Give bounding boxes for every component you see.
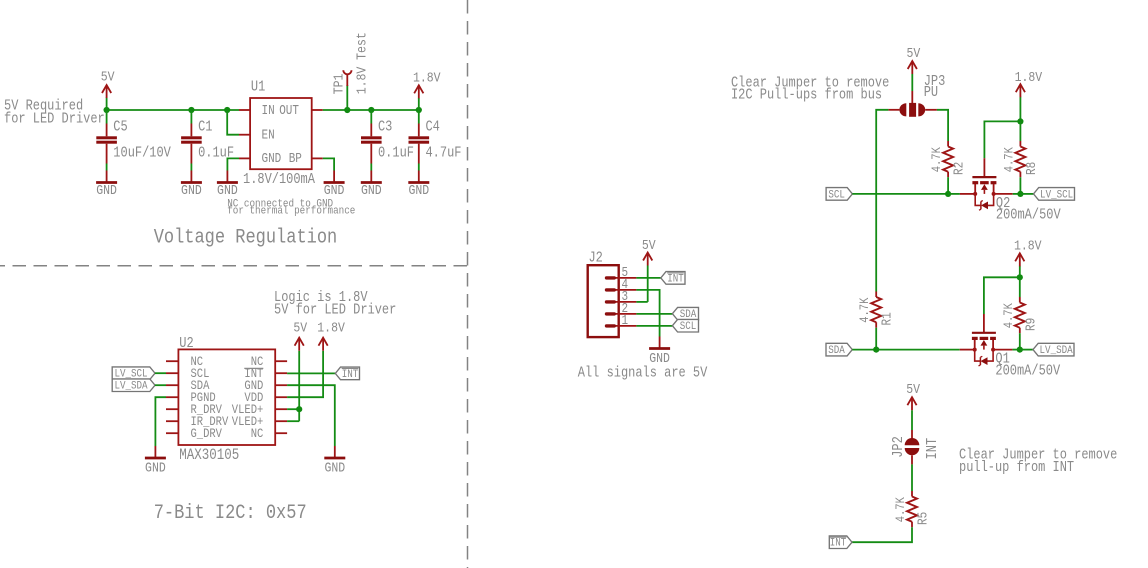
svg-text:4.7K: 4.7K [1001, 146, 1016, 172]
svg-text:5V: 5V [293, 320, 307, 336]
Q1 source-drain junctions [973, 348, 977, 352]
wire R2 bottom to SCL node [947, 177, 949, 194]
wire R9 body [1019, 277, 1021, 297]
ground [217, 171, 238, 199]
ground [361, 171, 382, 199]
node junction TP1 [344, 107, 350, 113]
svg-text:1.8V/100mA: 1.8V/100mA [243, 172, 316, 188]
pin stubs U1 [239, 110, 323, 158]
overline on INT pin [244, 367, 263, 369]
node junction R9 top [1017, 274, 1023, 280]
svg-text:1.8V: 1.8V [413, 69, 441, 85]
svg-text:IN: IN [262, 103, 275, 118]
wire LV_SDA to U2 SDA [155, 384, 166, 386]
ground [145, 446, 166, 476]
ground [649, 337, 670, 367]
wire SCL node to Q2 source [948, 193, 960, 195]
supply 5V [293, 320, 307, 351]
svg-text:1.8V: 1.8V [317, 320, 345, 336]
dashed frame divider vertical [467, 0, 469, 568]
svg-text:GND: GND [96, 182, 117, 198]
pin 1 pad and stub [605, 324, 637, 327]
node junction LV_SDA R9 [1017, 347, 1023, 353]
wire SDA flag to R1 node [852, 349, 876, 351]
pin stubs U2 left [166, 361, 178, 433]
note 5V Required for LED Driver [4, 99, 105, 128]
svg-text:for thermal performance: for thermal performance [227, 205, 355, 218]
svg-text:JP2: JP2 [891, 436, 907, 458]
supply 5V at J2 [642, 237, 656, 302]
wire to LV_SDA flag [1020, 349, 1033, 351]
svg-text:C1: C1 [198, 120, 212, 136]
node junction VLED+ [296, 406, 302, 412]
wire to LV_SCL flag [1020, 193, 1033, 195]
wire R5 bottom to INT flag [851, 527, 912, 542]
svg-text:5V: 5V [101, 68, 115, 84]
svg-text:GND: GND [181, 182, 202, 198]
svg-text:GND: GND [145, 459, 166, 475]
wire U2 VDD to 1.8V [287, 351, 323, 397]
wire LV_SCL to U2 SCL [155, 372, 166, 374]
wire R8 body [1019, 121, 1021, 141]
pin stubs U2 right [275, 361, 287, 433]
svg-text:5V: 5V [642, 237, 656, 253]
sensor IC U2 MAX30105 [166, 336, 287, 464]
ground [96, 171, 117, 199]
node junction C1 [188, 107, 194, 113]
svg-text:7-Bit I2C: 0x57: 7-Bit I2C: 0x57 [154, 501, 307, 525]
wire JP3 left to R1 top [876, 110, 888, 292]
ground [324, 446, 345, 476]
svg-text:GND: GND [324, 459, 345, 475]
supply 1.8V [413, 69, 441, 98]
svg-text:INT: INT [830, 537, 847, 550]
node junction C3 [368, 107, 374, 113]
svg-text:PU: PU [924, 85, 938, 101]
svg-text:BP: BP [289, 151, 302, 166]
wire EN tap to U1 EN pin [227, 110, 239, 135]
svg-text:1.8V Test: 1.8V Test [353, 32, 369, 94]
capacitor C1 net leads [190, 110, 192, 171]
net flag SCL at J2 [672, 319, 698, 333]
ground [408, 171, 429, 199]
svg-text:4.7K: 4.7K [857, 297, 872, 323]
svg-text:R5: R5 [916, 512, 931, 525]
svg-text:INT: INT [667, 273, 684, 286]
svg-text:GND: GND [324, 182, 345, 198]
note NC connected to GND [227, 198, 355, 218]
wire JP3 right to R2 top [937, 110, 948, 141]
svg-text:10uF/10V: 10uF/10V [113, 146, 171, 162]
node junction LV_SCL R8 [1017, 191, 1023, 197]
wire U2 PGND to ground [155, 397, 166, 446]
wire U1 OUT to 1.8V rail [323, 109, 419, 111]
Q2 gate lead [983, 158, 985, 176]
wire R9 bottom to LV_SDA node [1019, 333, 1021, 349]
svg-text:pull-up from INT: pull-up from INT [959, 460, 1074, 476]
ground [181, 171, 202, 199]
svg-text:SCL: SCL [680, 320, 697, 333]
node junction SDA R1 [873, 347, 879, 353]
capacitor C3 [361, 120, 414, 164]
resistor R1 4.7K [857, 292, 895, 328]
svg-text:R2: R2 [952, 162, 967, 175]
capacitor C4 [409, 120, 462, 164]
svg-text:NC: NC [251, 426, 264, 441]
svg-text:TP1: TP1 [330, 73, 346, 94]
wire U2 VLED+ pins to 5V [287, 351, 299, 421]
svg-text:U2: U2 [179, 336, 193, 352]
Q2 body diode [975, 194, 993, 210]
svg-text:4.7K: 4.7K [893, 496, 908, 522]
resistor R2 4.7K [929, 141, 967, 177]
net flag LV_SDA [112, 379, 155, 393]
supply 5V [906, 381, 920, 410]
Q1 gate lead [983, 314, 985, 333]
net flag LV_SCL [112, 367, 155, 381]
wire J2 pin2 to SDA flag [636, 313, 672, 315]
svg-text:1: 1 [622, 313, 629, 328]
JP3 pin leads [888, 109, 937, 111]
node junction SCL R2 [945, 191, 951, 197]
wire R8 bottom to LV_SCL node [1019, 177, 1021, 194]
supply 5V [907, 45, 921, 74]
svg-text:C3: C3 [378, 120, 392, 136]
svg-text:SCL: SCL [828, 189, 845, 202]
svg-text:5V: 5V [906, 381, 920, 397]
pin 3 pad and stub [605, 300, 637, 303]
dashed frame divider horizontal [0, 265, 468, 267]
svg-text:200mA/50V: 200mA/50V [995, 363, 1060, 379]
svg-text:5V for LED Driver: 5V for LED Driver [274, 302, 396, 318]
svg-text:1.8V: 1.8V [1014, 237, 1042, 253]
resistor R9 4.7K [1001, 297, 1039, 333]
svg-text:C5: C5 [113, 120, 127, 136]
wire JP2 to R5 [911, 455, 913, 491]
net flag INT bottom [829, 536, 852, 550]
ground [324, 171, 345, 199]
svg-text:OUT: OUT [279, 103, 299, 118]
note Logic is 1.8V [274, 290, 396, 319]
Q2 source-drain junctions [973, 192, 977, 196]
wire R1 bottom to SDA node [875, 328, 877, 350]
svg-text:LV_SCL: LV_SCL [1040, 189, 1073, 202]
svg-text:R1: R1 [880, 312, 895, 325]
connector J2 [588, 250, 637, 337]
n-channel mosfet Q1 [972, 333, 1060, 380]
svg-text:GND: GND [262, 151, 282, 166]
svg-text:C4: C4 [426, 120, 440, 136]
wire 1.8V to Q1 gate [984, 277, 1020, 314]
solder jumper JP3 [888, 74, 945, 117]
supply 5V net stem [106, 98, 108, 111]
net flag LV_SDA right [1033, 343, 1074, 357]
solder jumper JP2 [891, 436, 942, 459]
net flag SDA at J2 [672, 307, 698, 321]
supply 5V at JP3 [907, 45, 921, 103]
svg-text:for LED Driver: for LED Driver [4, 111, 105, 127]
supply 1.8V [317, 320, 345, 351]
svg-text:U1: U1 [251, 79, 265, 95]
capacitor C5 net leads [106, 110, 108, 171]
svg-text:4.7uF: 4.7uF [426, 146, 462, 162]
svg-text:LV_SDA: LV_SDA [1040, 344, 1074, 357]
wire J2 pin3 to 5V [636, 301, 647, 303]
svg-text:1.8V: 1.8V [1015, 69, 1043, 85]
Q1 body diode [975, 350, 993, 366]
capacitor C5 [96, 120, 171, 164]
n-channel mosfet Q2 [972, 177, 1060, 224]
svg-text:GND: GND [361, 182, 382, 198]
wire SCL flag to R2 node [852, 193, 948, 195]
svg-text:R9: R9 [1023, 318, 1038, 331]
capacitor C3 net leads [370, 110, 372, 171]
wire Q1 drain to LV_SDA node [993, 349, 1012, 351]
node junction EN tap [224, 107, 230, 113]
svg-text:EN: EN [262, 128, 275, 143]
net flag INT at J2 [661, 272, 685, 286]
wire J2 pin4 to ground [636, 290, 659, 337]
svg-text:Voltage Regulation: Voltage Regulation [154, 225, 338, 249]
wire J2 pin1 to SCL flag [636, 325, 672, 327]
resistor R8 4.7K [1001, 141, 1039, 177]
svg-text:LV_SDA: LV_SDA [114, 380, 148, 393]
net flag SCL [826, 188, 852, 202]
pin 2 pad and stub [605, 312, 637, 315]
supply 1.8V [1014, 237, 1042, 266]
capacitor C4 net leads [418, 110, 420, 171]
svg-text:0.1uF: 0.1uF [198, 146, 234, 162]
svg-text:G_DRV: G_DRV [191, 426, 222, 441]
resistor R5 4.7K [893, 491, 931, 527]
svg-text:GND: GND [408, 182, 429, 198]
supply 5V [101, 68, 115, 98]
voltage regulator U1 [239, 79, 323, 188]
svg-text:INT: INT [925, 438, 941, 460]
note Clear Jumper to remove pull-up from INT [959, 447, 1117, 476]
svg-text:INT: INT [342, 368, 359, 381]
svg-text:0.1uF: 0.1uF [378, 146, 414, 162]
wire 5V bus to U1 IN [107, 109, 239, 111]
supply 1.8V [1015, 69, 1043, 97]
node junction C4 1.8V [416, 107, 422, 113]
wire J2 pin5 to INT flag [636, 277, 660, 279]
svg-text:R8: R8 [1024, 162, 1039, 175]
supply 5V [642, 237, 656, 265]
svg-text:All signals are 5V: All signals are 5V [578, 365, 708, 381]
capacitor C1 [181, 120, 234, 164]
net flag SDA [826, 343, 852, 357]
net flag LV_SCL right [1034, 188, 1075, 202]
supply 1.8V at R9 [1014, 237, 1042, 277]
svg-text:5V: 5V [907, 45, 921, 61]
svg-text:MAX30105: MAX30105 [179, 447, 239, 464]
wire U2 GND pin to ground [287, 385, 335, 446]
pin 5 pad and stub [605, 276, 637, 279]
svg-text:I2C Pull-ups from bus: I2C Pull-ups from bus [731, 88, 882, 104]
svg-text:SDA: SDA [828, 344, 845, 357]
svg-text:4.7K: 4.7K [1001, 302, 1016, 328]
node junction C5 [104, 107, 110, 113]
pin 4 pad and stub [605, 288, 637, 291]
wire SDA node to Q1 source [876, 349, 960, 351]
supply 1.8V at R8 [1015, 69, 1043, 121]
wire Q2 drain to LV_SCL node [994, 193, 1013, 195]
test point TP1 [330, 32, 369, 110]
wire U1 GND pin to ground [227, 158, 239, 170]
note Clear Jumper to remove I2C Pull-ups from bus [731, 75, 889, 104]
wire U1 BP pin to ground [323, 158, 334, 170]
wire U2 INT pin to INT flag [287, 372, 335, 374]
svg-text:GND: GND [217, 182, 238, 198]
net flag INT right of U2 [335, 367, 359, 381]
svg-text:GND: GND [649, 350, 670, 366]
node junction R8 top [1017, 118, 1023, 124]
svg-text:4.7K: 4.7K [929, 146, 944, 172]
supply 5V at JP2 [906, 381, 920, 438]
wire 1.8V to Q2 gate [984, 121, 1020, 158]
svg-text:200mA/50V: 200mA/50V [996, 208, 1061, 224]
supply 1.8V stem [418, 98, 420, 110]
